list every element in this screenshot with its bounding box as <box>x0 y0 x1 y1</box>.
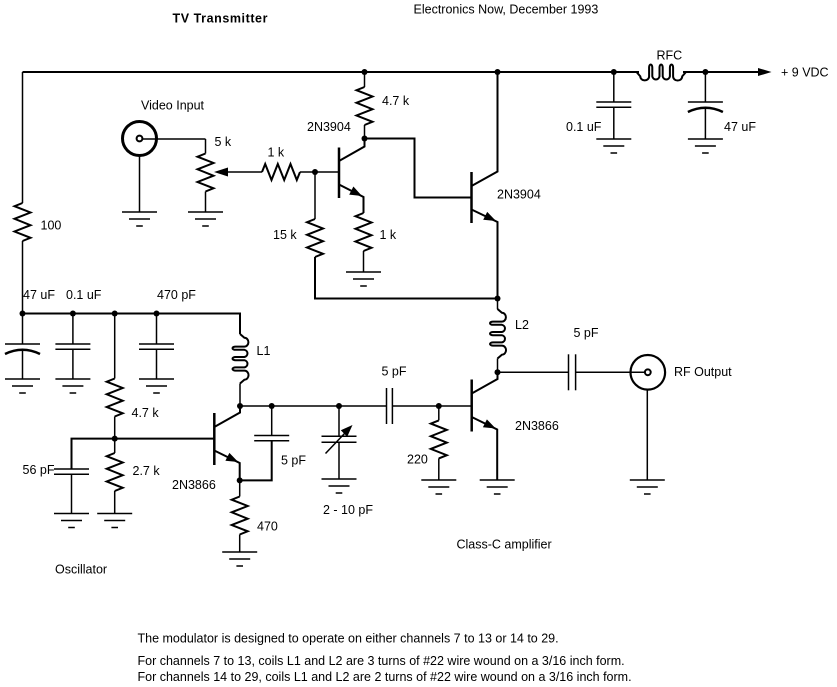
svg-text:Electronics Now, December 1993: Electronics Now, December 1993 <box>414 3 599 17</box>
node 47uF tap on rail <box>702 69 708 75</box>
svg-text:2N3866: 2N3866 <box>172 478 216 492</box>
wire Q3 base rail <box>72 439 215 469</box>
svg-text:4.7 k: 4.7 k <box>132 406 160 420</box>
ground pot 5k <box>188 212 223 226</box>
svg-text:RF Output: RF Output <box>674 365 732 379</box>
svg-text:1 k: 1 k <box>380 228 397 242</box>
svg-text:470 pF: 470 pF <box>157 288 196 302</box>
capacitor 0.1 uF (supply) <box>566 72 631 139</box>
node trimmer tap <box>336 403 342 409</box>
ground trimmer <box>322 479 357 493</box>
node 4.7k osc tap <box>112 311 118 317</box>
resistor 470 <box>232 480 278 552</box>
wire L2 node to output cap <box>498 371 569 373</box>
node Q2 emitter / modulated supply <box>495 296 501 302</box>
ground 47uF osc <box>5 379 40 393</box>
wire J1 ground stem <box>139 156 141 212</box>
node 470pF osc tap <box>154 311 160 317</box>
svg-text:TV Transmitter: TV Transmitter <box>173 12 269 26</box>
svg-text:220: 220 <box>407 453 428 467</box>
svg-text:5 pF: 5 pF <box>382 365 407 379</box>
svg-text:Video Input: Video Input <box>141 99 205 113</box>
node 0.1uF osc tap <box>70 311 76 317</box>
capacitor 5 pF feedback <box>240 406 307 480</box>
svg-text:15 k: 15 k <box>273 228 297 242</box>
capacitor 470 pF <box>139 288 196 379</box>
ground 0.1uF supply <box>596 139 631 153</box>
svg-text:4.7 k: 4.7 k <box>382 94 410 108</box>
node Q3 base / divider <box>112 436 118 442</box>
inductor L1 <box>233 334 271 406</box>
svg-text:2N3866: 2N3866 <box>515 419 559 433</box>
wire top supply rail right segment <box>683 71 759 73</box>
svg-text:5 k: 5 k <box>215 135 232 149</box>
inductor RFC <box>637 49 687 81</box>
wire left vertical upper <box>22 72 24 203</box>
svg-text:100: 100 <box>41 219 62 233</box>
transistor Q4 2N3866 amplifier <box>472 372 559 480</box>
transistor Q1 2N3904 <box>307 120 365 213</box>
svg-text:Oscillator: Oscillator <box>55 563 107 577</box>
node 0.1uF tap on rail <box>611 69 617 75</box>
node base Q1 <box>312 169 318 175</box>
wire J1 center to pot <box>143 138 206 140</box>
capacitor 56 pF <box>23 463 90 514</box>
svg-text:For channels 14 to 29, coils L: For channels 14 to 29, coils L1 and L2 a… <box>138 670 632 684</box>
ground Q4 emitter <box>480 480 515 494</box>
svg-text:For channels 7 to 13, coils L1: For channels 7 to 13, coils L1 and L2 ar… <box>138 654 625 668</box>
resistor 220 <box>407 406 447 480</box>
ground 470 <box>222 552 257 566</box>
ground 470pF <box>139 379 174 393</box>
resistor 4.7k (top) <box>357 69 410 142</box>
wire oscillator output line <box>240 405 387 407</box>
svg-text:2N3904: 2N3904 <box>497 188 541 202</box>
ground J1 <box>122 212 157 226</box>
svg-text:2N3904: 2N3904 <box>307 120 351 134</box>
svg-text:2.7 k: 2.7 k <box>133 464 161 478</box>
capacitor 5 pF coupling <box>382 365 407 425</box>
capacitor 5 pF output <box>569 326 599 390</box>
capacitor 0.1 uF (oscillator) <box>55 288 101 379</box>
node L2 bottom / Q4 collector <box>495 369 501 375</box>
wire top supply rail left segment <box>23 71 640 73</box>
ground Q1 emitter resistor <box>346 272 381 286</box>
svg-text:5 pF: 5 pF <box>281 454 306 468</box>
ground 2.7k <box>97 514 132 528</box>
wire J2 ground stem <box>646 390 648 480</box>
node L1 bottom / Q3 collector <box>237 403 243 409</box>
svg-text:The modulator is designed to o: The modulator is designed to operate on … <box>138 632 559 646</box>
node Q2 collector at rail <box>495 69 501 75</box>
node Q3 emitter <box>237 477 243 483</box>
transistor Q2 2N3904 <box>472 72 541 299</box>
svg-text:L1: L1 <box>257 344 271 358</box>
arrow pot wiper <box>214 168 262 177</box>
potentiometer 5k <box>198 135 232 212</box>
svg-text:56 pF: 56 pF <box>23 463 55 477</box>
wire 1k to base node <box>300 171 339 173</box>
node feedback cap tap <box>269 403 275 409</box>
ground 220 <box>421 480 456 494</box>
svg-text:2 - 10 pF: 2 - 10 pF <box>323 503 373 517</box>
resistor 4.7k (oscillator) <box>107 314 160 439</box>
capacitor 47 uF (oscillator, polarized) <box>5 288 55 379</box>
ground 56pF <box>54 514 89 528</box>
wire Q1 collector to Q2 base <box>365 139 472 198</box>
inductor L2 <box>490 299 529 373</box>
wire 15k down and right to Q2 emitter node <box>315 257 498 299</box>
svg-text:0.1 uF: 0.1 uF <box>66 288 102 302</box>
node Q4 base <box>436 403 442 409</box>
resistor 1k (wiper to base) <box>262 146 300 181</box>
resistor 2.7k <box>107 439 161 514</box>
svg-text:5 pF: 5 pF <box>574 326 599 340</box>
ground 0.1uF osc <box>55 379 90 393</box>
svg-text:L2: L2 <box>515 318 529 332</box>
wire base node down to 15k <box>314 172 316 219</box>
svg-text:1 k: 1 k <box>268 146 285 160</box>
svg-text:47 uF: 47 uF <box>23 288 55 302</box>
svg-text:0.1 uF: 0.1 uF <box>566 120 602 134</box>
transistor Q3 2N3866 oscillator <box>172 406 240 492</box>
svg-text:470: 470 <box>257 520 278 534</box>
connector J2 RF Output <box>631 355 733 390</box>
resistor 100 <box>15 203 62 241</box>
wire coupling cap to Q4 base <box>392 405 471 407</box>
connector J1 Video Input <box>123 99 205 156</box>
ground J2 <box>630 480 665 494</box>
wire output cap to J2 <box>576 371 645 373</box>
svg-text:RFC: RFC <box>657 49 683 63</box>
arrow +9VDC supply <box>758 66 829 80</box>
capacitor 47 uF (supply, polarized) <box>688 72 756 139</box>
trimmer capacitor 2-10 pF <box>322 406 374 517</box>
svg-text:+ 9 VDC: + 9 VDC <box>781 66 829 80</box>
resistor 1k (Q1 emitter) <box>356 213 397 272</box>
svg-text:Class-C amplifier: Class-C amplifier <box>457 538 552 552</box>
wire left vertical lower <box>22 241 24 314</box>
svg-text:47 uF: 47 uF <box>724 120 756 134</box>
wire oscillator supply rail <box>23 314 241 335</box>
ground 47uF supply <box>688 139 723 153</box>
node 47uF osc tap <box>20 311 26 317</box>
resistor 15k <box>273 219 323 257</box>
